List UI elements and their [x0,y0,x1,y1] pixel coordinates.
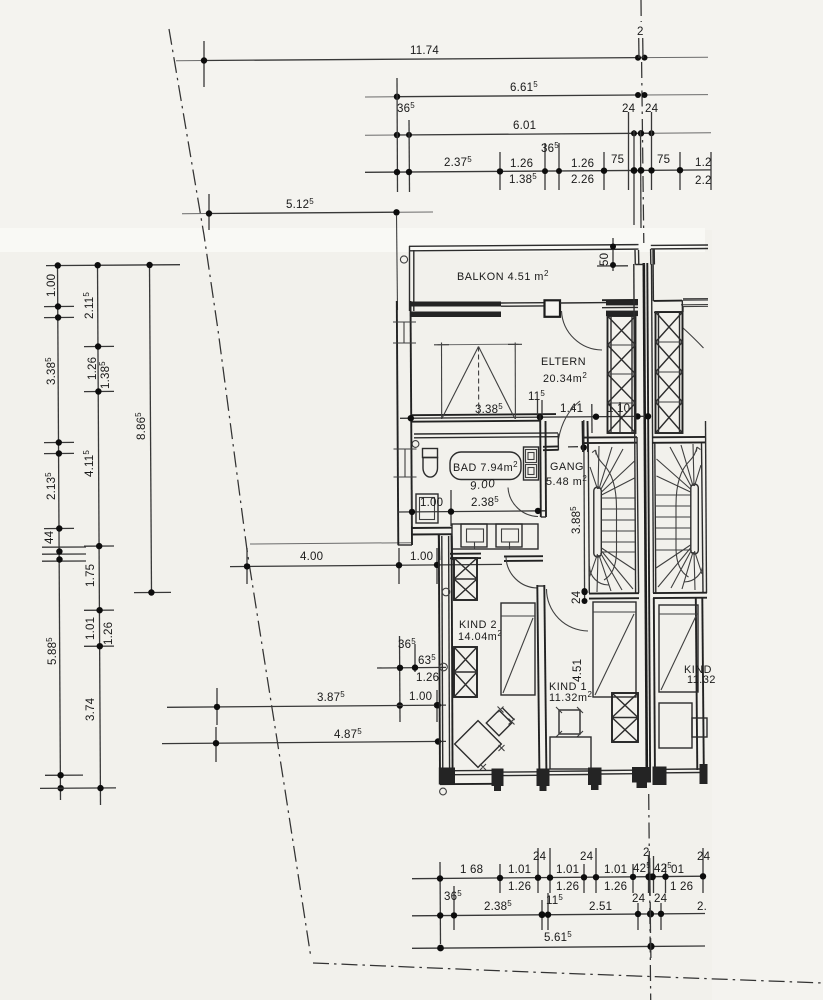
door arc eltern entry [562,311,603,350]
hall lower wall jog [411,528,452,560]
stair treads right house [656,444,703,590]
svg-text:75: 75 [657,154,670,166]
left wall lower (x 439-450) [439,535,440,781]
svg-text:24: 24 [533,851,547,863]
svg-text:1.2: 1.2 [695,157,712,169]
svg-text:4.00: 4.00 [300,551,323,563]
svg-text:24: 24 [654,893,668,905]
south wall window kind1 [550,771,589,775]
dimension 50 (balcony) [597,238,628,271]
svg-text:5.48 m2: 5.48 m2 [546,474,587,488]
svg-text:1.26: 1.26 [571,158,594,170]
south wall pier 1 [492,769,504,792]
eltern/bad dividing wall [411,414,558,438]
svg-text:1.26: 1.26 [510,158,533,170]
stairwell bottom wall [589,593,639,598]
svg-text:24: 24 [632,893,646,905]
svg-text:1.26: 1.26 [87,357,99,380]
svg-text:11.74: 11.74 [410,45,439,57]
dimension 6.61+5 [365,80,708,100]
svg-text:1.00: 1.00 [410,551,433,563]
node circle left wall 2 [440,663,448,671]
node circle bad wall [412,441,419,448]
south wall window kind2 [504,772,537,776]
door arc gang-eltern [559,401,581,439]
node circle bottom corner [440,788,447,795]
dresser kind1 [550,737,591,769]
kind2 top wall [450,554,543,561]
party wall projection ticks bottom [649,858,651,896]
south wall pier 2 [537,769,550,792]
svg-text:1.00: 1.00 [46,274,58,297]
svg-text:11.32: 11.32 [687,674,716,686]
svg-text:14.04m2: 14.04m2 [458,629,502,643]
gang niche wall [543,404,592,451]
door arc right house [682,327,704,348]
dimension 2 (party wall top) [637,26,644,58]
bottom chain line 1 [412,847,711,944]
svg-text:3.74: 3.74 [85,697,97,721]
south wall party block [632,767,651,788]
wardrobe X box lower [454,647,477,697]
left top tick line [46,264,180,267]
reference line y=543 [250,543,411,544]
wardrobe triangle symbol eltern [434,343,522,420]
left chain B x=98 [40,262,116,805]
desk group kind2 [455,707,515,771]
svg-text:1.01: 1.01 [556,864,579,876]
dimension 3.87+5 [167,688,446,725]
bottom chain line 3 dimension 5.61+5 [412,930,705,951]
chain dimension line y=171 [365,78,712,228]
node circle balcony wall [400,256,407,263]
dimension 36+5 / 63+5 / 1.26 / 1.00 cluster [377,636,446,722]
bed kind1 [593,602,636,697]
svg-text:50: 50 [599,253,611,266]
side table right house [692,718,707,737]
svg-text:2: 2 [643,847,650,859]
svg-text:2.26: 2.26 [571,174,594,186]
label 24 rotated [571,588,588,604]
svg-text:1.75: 1.75 [85,564,97,587]
svg-text:1.00: 1.00 [420,497,443,509]
south wall right end block [700,764,708,784]
svg-text:1.01: 1.01 [85,617,97,640]
vanity right of tub [524,447,539,480]
svg-text:KIND 2: KIND 2 [459,619,497,631]
stairwell top wall [583,421,638,452]
south wall window kind1 east [602,770,635,774]
dresser right house [659,703,692,748]
svg-text:1 68: 1 68 [460,864,483,876]
svg-text:1 26: 1 26 [670,881,693,893]
party wall core [635,249,654,768]
boundary dash-dot bottom horizontal [313,963,823,983]
svg-text:ELTERN: ELTERN [541,356,586,368]
right house inner wall [652,264,654,593]
north wall of house [411,300,638,317]
svg-text:4.51: 4.51 [572,659,584,682]
node circle left wall [442,588,450,596]
svg-text:2.: 2. [697,901,707,913]
dimension 4.87+5 [162,727,446,762]
bed kind right house [659,605,698,692]
svg-text:44: 44 [44,530,56,544]
svg-text:2: 2 [637,26,644,38]
svg-text:GANG: GANG [550,461,584,473]
divider wall kind2/kind1 [537,585,546,781]
door arc bad [508,488,538,517]
svg-text:24: 24 [580,851,594,863]
door arc kind1 [547,589,589,631]
bed kind2 [501,603,535,695]
stairwell right wall [634,264,639,593]
left chain C x=150 dimension 8.86+5 [134,262,171,596]
bottom chain line 2 [412,886,707,930]
kind room right house walls [654,598,704,781]
balcony parapet [397,215,639,311]
dimension 1.00 / 2.38+5 hall [398,490,545,526]
vanity counter two sinks [452,524,538,549]
closet upper left [416,494,438,523]
south wall window right house [667,769,700,773]
svg-text:1.26: 1.26 [604,881,627,893]
table kind1 [556,707,583,737]
svg-text:1.26: 1.26 [416,672,439,684]
svg-text:20.34m2: 20.34m2 [543,371,587,385]
svg-text:1.26: 1.26 [508,881,531,893]
toilet [423,449,438,478]
svg-text:1.00: 1.00 [409,691,432,703]
right house top wall [651,245,708,330]
boundary dash-dot diagonal left [169,29,311,958]
south wall pier 3 [588,768,602,791]
bathtub [450,452,521,480]
bad/gang wall [540,415,546,517]
wardrobe X box upper [454,558,477,600]
svg-text:1.01: 1.01 [508,864,531,876]
dimension 5.12+5 [182,194,433,230]
wardrobe X box kind1 [612,693,638,742]
storage X box right house [656,299,709,433]
left wall upper (x 397-411) [393,301,417,545]
party wall center line dash-dot top [640,0,642,22]
stairwell bottom wall right [653,593,707,598]
south wall right house pier [653,767,667,786]
stair treads left house [590,446,635,592]
dimension 3.88+5 vertical [569,420,588,599]
svg-text:11.32m2: 11.32m2 [549,690,593,704]
svg-text:1.01: 1.01 [604,864,627,876]
dimension 4.00 / 1.00 at y=565 [230,548,502,584]
svg-text:24: 24 [697,851,711,863]
dimension 3.38+5 / 11+5 / 1.41 / 1.10 [400,389,651,432]
party wall center line dash-dot bottom [649,794,651,1000]
svg-text:BAD 7.94m2: BAD 7.94m2 [453,460,518,474]
svg-text:2.51: 2.51 [589,901,612,913]
svg-text:BALKON 4.51 m2: BALKON 4.51 m2 [457,269,549,283]
svg-text:2.2: 2.2 [695,175,712,187]
svg-text:01: 01 [671,864,684,876]
svg-text:1.26: 1.26 [103,622,115,645]
door arc kind2 [506,557,538,588]
stairwell walls right house [652,421,707,593]
svg-text:75: 75 [611,154,624,166]
stairwell left wall [588,443,589,593]
dimension 6.01 [365,120,711,138]
south wall terrace threshold [440,770,492,784]
svg-text:24: 24 [571,590,583,604]
left chain A x=58 [42,262,86,800]
dimension 11.74 [176,41,708,87]
south wall corner block left [439,768,455,785]
storage X box left house [602,300,638,433]
svg-text:1.26: 1.26 [556,881,579,893]
svg-text:6.01: 6.01 [513,120,536,132]
